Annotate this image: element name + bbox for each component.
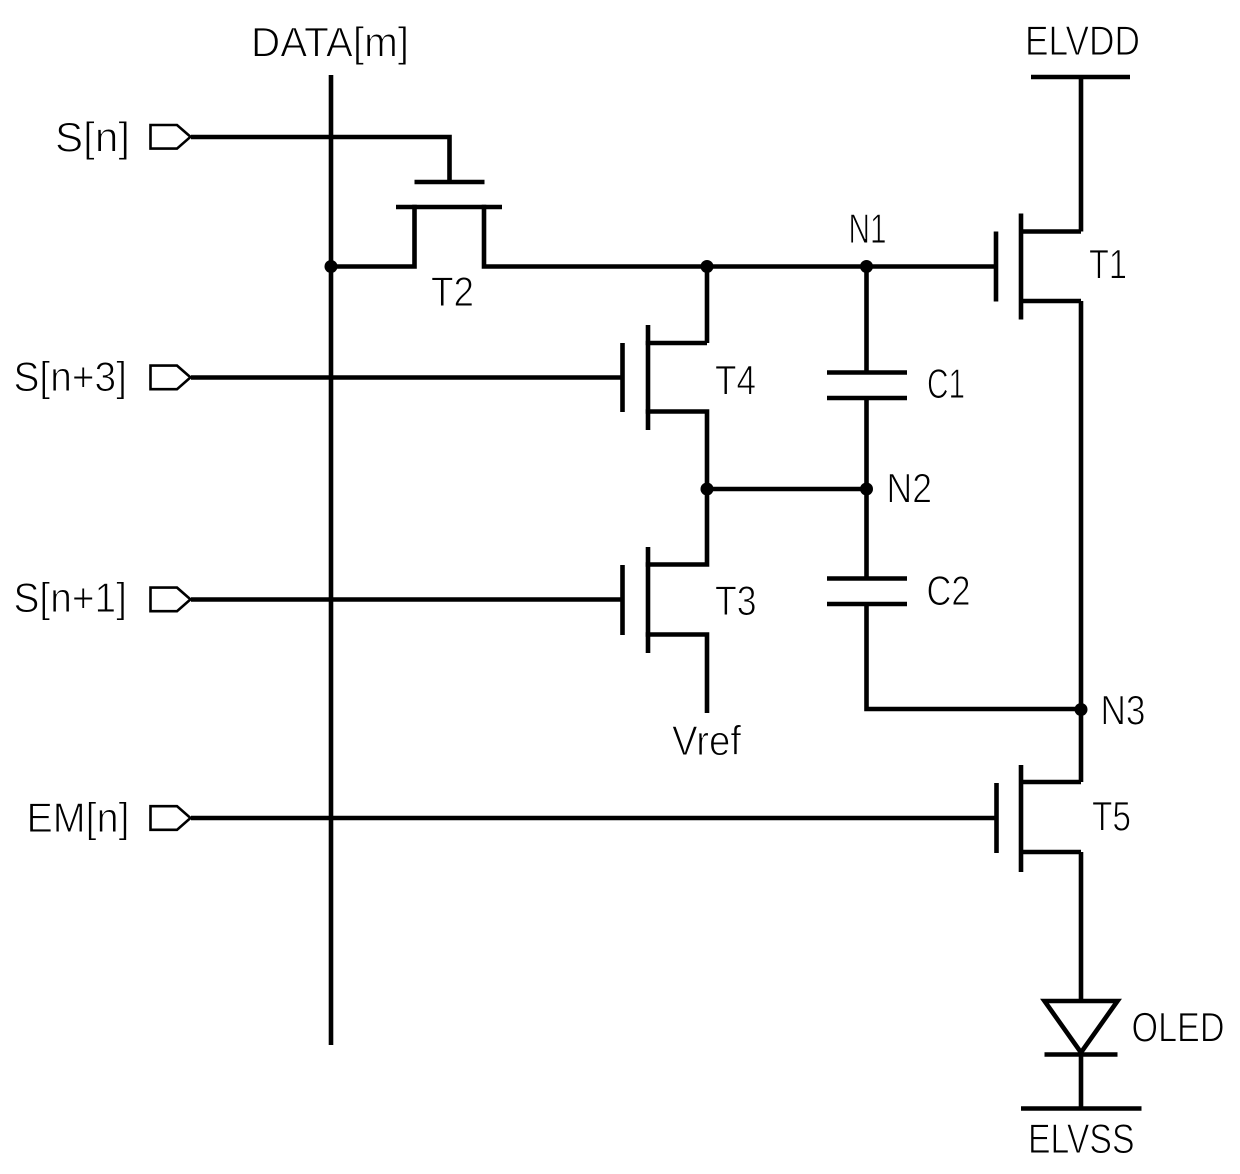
junction dot DATA-T2 source: [325, 260, 338, 273]
transistor T2 gate bar: [415, 180, 485, 185]
node N2 junction dot: [860, 483, 873, 496]
input flag EM[n]: [151, 806, 191, 830]
svg-text:T3: T3: [715, 577, 757, 624]
svg-text:N3: N3: [1101, 687, 1146, 734]
wire T1 source down through N3 to T5 drain: [1079, 301, 1084, 782]
wire S[n+1] row from input flag to T3 gate: [191, 597, 622, 602]
svg-text:N2: N2: [887, 465, 933, 512]
wire DATA[m] vertical data line: [329, 75, 334, 1045]
wire EM[n] row from input flag to T5 gate: [191, 816, 996, 821]
svg-text:C2: C2: [927, 567, 971, 614]
power rail ELVSS bar: [1021, 1106, 1142, 1111]
wire C1 bottom to N2 row: [864, 398, 869, 489]
svg-text:T1: T1: [1089, 241, 1127, 288]
svg-text:Vref: Vref: [672, 717, 741, 764]
transistor T1 source lead: [1021, 299, 1081, 304]
transistor T1 drain lead: [1021, 229, 1081, 234]
transistor T3 gate bar: [620, 565, 625, 635]
wire T5 source down to OLED anode: [1079, 852, 1084, 1001]
svg-text:S[n+1]: S[n+1]: [14, 574, 128, 621]
wire C2 bottom down and right to N3: [867, 604, 1082, 709]
transistor T4 gate bar: [620, 343, 625, 412]
capacitor C1 top plate: [827, 370, 907, 375]
capacitor C2 bottom plate: [827, 602, 907, 607]
wire N2 row horizontal: [707, 487, 867, 492]
transistor T2 source lead to DATA line: [331, 205, 415, 267]
wire T4 drain stem from N1 row: [705, 267, 710, 344]
svg-text:N1: N1: [849, 205, 887, 252]
transistor T4 channel bar: [646, 325, 651, 430]
node N1 junction dot: [860, 260, 873, 273]
transistor T2 channel bar: [396, 205, 502, 210]
wire ELVDD to T1 drain: [1079, 77, 1084, 232]
input flag S[n]: [151, 125, 191, 149]
transistor T4 source lead down to N2: [646, 412, 707, 490]
transistor T5 drain lead: [1021, 780, 1081, 785]
transistor T5 source lead: [1021, 850, 1081, 855]
junction dot N2 left: [701, 483, 714, 496]
node N3 junction dot: [1075, 703, 1088, 716]
svg-text:DATA[m]: DATA[m]: [251, 19, 409, 66]
diode OLED triangle: [1045, 1001, 1118, 1053]
svg-text:EM[n]: EM[n]: [27, 794, 130, 841]
svg-text:ELVSS: ELVSS: [1028, 1115, 1135, 1162]
power rail ELVDD bar: [1031, 75, 1130, 80]
transistor T2 drain lead to N1 wire: [484, 205, 996, 267]
junction dot T4 drain on N1 wire: [701, 260, 714, 273]
transistor T5 channel bar: [1019, 765, 1024, 872]
transistor T4 drain lead: [646, 341, 707, 346]
svg-text:C1: C1: [927, 360, 965, 407]
wire S[n+3] row from input flag to T4 gate: [191, 375, 622, 380]
svg-text:T2: T2: [431, 268, 474, 315]
input flag S[n+3]: [151, 366, 191, 390]
svg-text:ELVDD: ELVDD: [1025, 17, 1140, 64]
svg-text:T5: T5: [1092, 793, 1131, 840]
wire OLED cathode to ELVSS: [1079, 1053, 1084, 1109]
wire N2 to C2 top: [864, 489, 869, 579]
svg-text:S[n]: S[n]: [55, 114, 130, 161]
diode OLED cathode bar: [1045, 1052, 1118, 1057]
transistor T1 channel bar: [1019, 214, 1024, 320]
svg-text:OLED: OLED: [1132, 1004, 1225, 1051]
wire N1 to C1 top: [864, 267, 869, 373]
capacitor C2 top plate: [827, 576, 907, 581]
transistor T3 channel bar: [646, 547, 651, 653]
svg-text:S[n+3]: S[n+3]: [14, 353, 128, 400]
transistor T3 source lead to Vref stub: [646, 635, 707, 714]
input flag S[n+1]: [151, 588, 191, 612]
transistor T3 drain lead up to N2: [646, 489, 707, 565]
transistor T5 gate bar: [994, 783, 999, 853]
svg-text:T4: T4: [715, 357, 756, 404]
wire S[n] row from input flag to T2 gate stem: [191, 137, 450, 182]
transistor T1 gate bar: [994, 232, 999, 302]
capacitor C1 bottom plate: [827, 396, 907, 401]
